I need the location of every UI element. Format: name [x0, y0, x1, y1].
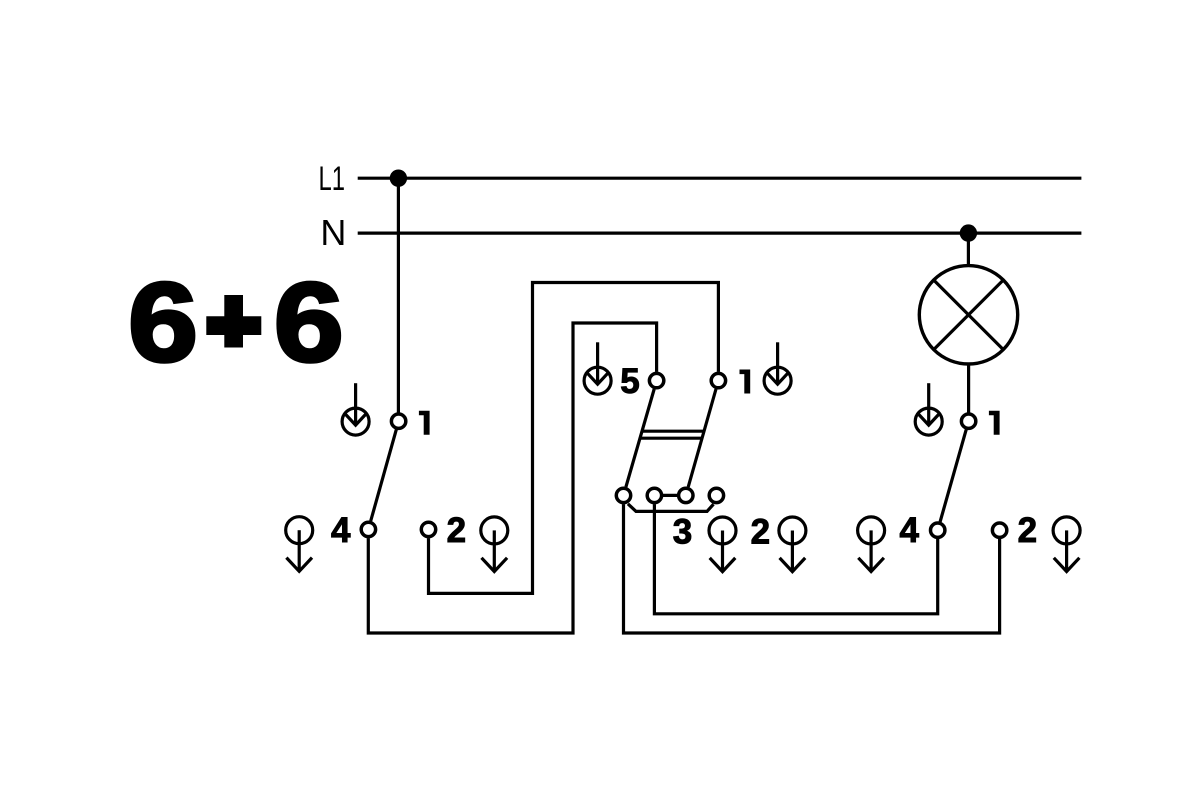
- right switch blade: [940, 430, 966, 522]
- wire N bus: [358, 232, 1082, 235]
- wire bracket terminal A to D: [628, 504, 714, 512]
- incoming arrow symbol at S1 terminal 1: [342, 383, 369, 435]
- switch S1 terminal 1: [391, 414, 405, 428]
- middle switch bottom terminal C (3): [679, 488, 693, 502]
- outgoing arrow symbol at middle terminal 3: [709, 517, 736, 572]
- switch S1 terminal 2: [421, 522, 435, 536]
- outgoing arrow symbol at right switch terminal 2: [1053, 517, 1080, 572]
- middle switch blade left: [626, 389, 654, 487]
- middle switch terminal 1: [711, 373, 725, 387]
- middle switch bottom terminal D: [709, 488, 723, 502]
- lamp E1 circle: [919, 266, 1017, 364]
- wire from lamp to right switch terminal 1: [967, 364, 970, 413]
- wire L1 bus: [358, 177, 1082, 180]
- label 1 at middle switch: [740, 370, 751, 394]
- outgoing arrow symbol at middle terminal 2: [779, 517, 806, 572]
- svg-text:4: 4: [899, 511, 919, 550]
- title 6+6 plus sign: [206, 295, 261, 348]
- middle switch linkage bar lower: [640, 437, 702, 440]
- svg-text:3: 3: [673, 513, 692, 552]
- lamp E1 cross stroke 1: [933, 279, 1004, 350]
- right switch terminal 2: [992, 523, 1006, 537]
- middle switch linkage bar upper: [642, 430, 704, 433]
- wire from bottom terminal B to right switch terminal 4: [654, 504, 937, 614]
- svg-text:4: 4: [331, 511, 351, 550]
- wire from S1 terminal 2 to middle switch terminal 1: [429, 283, 719, 594]
- svg-text:6: 6: [274, 260, 344, 385]
- incoming arrow symbol at middle terminal 1: [764, 342, 791, 394]
- label 1 at S1: [419, 411, 430, 435]
- svg-text:2: 2: [447, 511, 466, 550]
- svg-text:5: 5: [620, 362, 639, 401]
- wire from N dot down to lamp: [967, 233, 970, 266]
- svg-text:6: 6: [128, 260, 198, 385]
- wire link terminal B to C: [661, 494, 679, 497]
- node junction dot on N: [960, 224, 977, 241]
- wire from L1 dot down to switch S1 terminal 1: [397, 178, 400, 412]
- outgoing arrow symbol at S1 terminal 4: [286, 517, 313, 572]
- right switch terminal 4: [931, 523, 945, 537]
- switch S1 blade: [371, 430, 397, 521]
- wire from bottom terminal A to right switch terminal 2: [624, 504, 1000, 633]
- wire from S1 terminal 4 to middle switch terminal 5: [368, 323, 656, 633]
- svg-text:N: N: [320, 212, 346, 253]
- incoming arrow symbol at right switch terminal 1: [915, 383, 942, 435]
- middle switch bottom terminal B: [647, 488, 661, 502]
- node junction dot on L1: [390, 170, 407, 187]
- middle switch bottom terminal A: [616, 488, 630, 502]
- switch S1 terminal 4: [361, 522, 375, 536]
- right switch terminal 1: [961, 414, 975, 428]
- svg-text:L1: L1: [319, 160, 346, 198]
- label 1 at right switch: [989, 411, 1000, 435]
- middle switch blade right: [688, 389, 716, 487]
- svg-text:2: 2: [1018, 511, 1037, 550]
- incoming arrow symbol at middle terminal 5: [584, 342, 611, 394]
- lamp E1 cross stroke 2: [933, 279, 1004, 350]
- middle switch terminal 5: [649, 373, 663, 387]
- outgoing arrow symbol at S1 terminal 2: [481, 517, 508, 572]
- svg-text:2: 2: [751, 513, 770, 552]
- outgoing arrow symbol at right switch terminal 4: [858, 517, 885, 572]
